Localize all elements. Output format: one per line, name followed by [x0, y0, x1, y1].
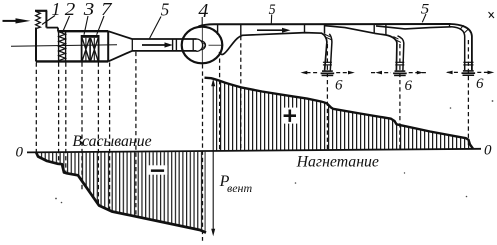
- duct 5 segment3 bottom: [376, 26, 452, 29]
- elbow 2 gore ticks: [393, 37, 401, 43]
- svg-text:5: 5: [269, 2, 276, 18]
- elbow 3 outer wall (duct end turns down): [451, 24, 472, 70]
- svg-text:4: 4: [198, 0, 208, 22]
- fan 4 (scroll casing circle): [182, 27, 223, 64]
- plus sign box (discharge): [282, 108, 298, 124]
- svg-text:вент: вент: [227, 181, 252, 195]
- projection line from discharge duct start: [240, 36, 242, 151]
- label 7 with leader: [97, 0, 113, 35]
- suction duct 5: [132, 39, 197, 51]
- drop 2 flange ticks: [395, 62, 404, 65]
- filter/heater 3,7 (box with X cells): [82, 35, 99, 61]
- label 3 with leader: [83, 0, 95, 35]
- elbow 3 gore ticks: [460, 25, 469, 32]
- elbow 1 inner wall: [329, 34, 332, 71]
- stray mark top right: [489, 12, 495, 18]
- duct flange before fan: [173, 39, 177, 52]
- projection line from suction duct inlet: [135, 52, 137, 218]
- joint tick seg2 end: [373, 24, 375, 33]
- svg-text:6: 6: [405, 78, 413, 94]
- suction hatch area (negative pressure): [39, 152, 206, 233]
- outlet 1 left air arrow: [301, 71, 319, 75]
- projection line from fan outlet: [219, 59, 221, 151]
- svg-text:0: 0: [16, 145, 24, 161]
- discharge pressure outline (thick): [205, 78, 474, 149]
- discharge hatch area (positive pressure): [214, 79, 472, 152]
- outlet 6 diffuser plates (branch 2): [393, 70, 407, 76]
- label 1 with leader: [42, 0, 61, 24]
- label 2 with leader: [62, 0, 75, 33]
- svg-text:6: 6: [335, 78, 343, 94]
- duct 5 segment2 bottom: [325, 26, 374, 34]
- projection line from valve left edge: [58, 63, 60, 164]
- svg-text:7: 7: [101, 0, 113, 19]
- fan volute top into discharge duct top: [199, 24, 451, 27]
- fan volute bottom transition and duct 5 segment1 bottom: [219, 33, 322, 55]
- fan crosshair centerlines: [202, 27, 222, 63]
- label 5 discharge duct seg3 with leader: [421, 1, 430, 22]
- flow arrow in discharge duct: [257, 28, 291, 33]
- elbow 2 outer wall: [374, 33, 397, 70]
- fan pressure dimension line with arrowheads: [211, 79, 215, 236]
- zero line: [27, 149, 481, 153]
- intake shaft walls: [35, 11, 58, 62]
- confuser cone: [108, 31, 132, 61]
- elbow 3 inner wall: [452, 27, 465, 70]
- scan specks: [55, 100, 493, 203]
- louvered grille 1 (zigzag): [36, 12, 41, 29]
- label 4 fan with leader: [198, 0, 208, 26]
- projection line from filter left edge: [81, 63, 83, 191]
- branch 2 takeoff joint tick: [385, 24, 387, 35]
- svg-text:6: 6: [476, 76, 484, 92]
- drop 3 flange ticks: [463, 62, 473, 65]
- svg-text:Нагнетание: Нагнетание: [296, 154, 379, 171]
- inlet air arrow: [3, 18, 31, 23]
- outlet 2 left air arrow: [371, 71, 391, 75]
- chamber box: [36, 31, 108, 61]
- suction pressure outline (thick): [36, 152, 206, 233]
- elbow 2 inner wall: [398, 36, 404, 71]
- fan inlet cone (nested arcs): [193, 39, 205, 51]
- label 5 discharge duct seg1 with leader: [269, 2, 276, 24]
- projection line from fan centre: [202, 64, 204, 241]
- svg-text:2: 2: [65, 0, 76, 19]
- outlet 3 right air arrow: [477, 71, 494, 75]
- projection line from filter right edge: [97, 63, 99, 205]
- svg-text:0: 0: [484, 143, 492, 159]
- elbow 1 outer wall: [322, 33, 327, 70]
- outlet 6 diffuser plates (branch 1): [321, 70, 335, 76]
- minus sign box (suction): [148, 165, 168, 174]
- flow arrow in suction duct: [142, 42, 173, 47]
- drop 1 flange ticks: [323, 62, 332, 65]
- axis centerline: [11, 45, 117, 47]
- svg-text:5: 5: [161, 0, 170, 19]
- joint tick x=304: [304, 24, 306, 32]
- joint tick seg3 before end elbow: [449, 24, 451, 27]
- branch 1 centreline dashed: [326, 44, 328, 150]
- branch 2 centreline dashed: [399, 44, 401, 150]
- label 5 suction duct with leader: [150, 0, 170, 38]
- outlet 3 left air arrow: [446, 71, 460, 75]
- outlet 1 right air arrow: [336, 71, 355, 75]
- branch 3 centreline dashed: [467, 40, 469, 149]
- damper valve 2 (hatched column): [59, 31, 66, 61]
- elbow 1 gore ticks: [325, 34, 332, 40]
- projection line from chamber outlet: [109, 63, 111, 211]
- joint tick x=240: [240, 24, 242, 35]
- projection line from shaft wall: [35, 63, 37, 153]
- outlet 2 right air arrow: [409, 71, 427, 75]
- fan outlet flange tick: [217, 25, 219, 35]
- outlet 6 diffuser plates (branch 3): [462, 70, 476, 76]
- branch 1 takeoff joint tick: [324, 24, 326, 34]
- projection line from valve right edge: [65, 63, 67, 173]
- svg-text:Всасывание: Всасывание: [72, 133, 151, 150]
